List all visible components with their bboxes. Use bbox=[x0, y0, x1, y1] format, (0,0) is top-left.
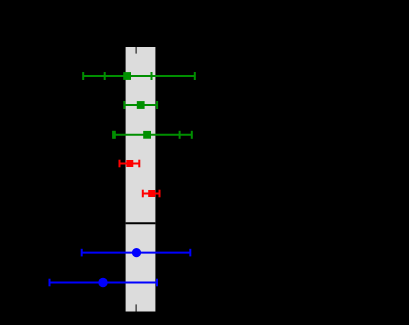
measurement 1 (green) error bar bbox=[83, 72, 195, 80]
separator line (black, visible over band) bbox=[126, 222, 156, 224]
average band bbox=[126, 47, 156, 312]
measurement 4 (red) error bar bbox=[120, 160, 140, 168]
measurement 7 (blue) error bar bbox=[50, 278, 158, 287]
measurement 5 (red) error bar bbox=[143, 190, 160, 198]
measurement 6 (blue) error bar bbox=[82, 248, 191, 257]
bottom axis tick bbox=[135, 304, 137, 311]
top axis tick bbox=[135, 47, 137, 54]
measurement 3 (green) error bar bbox=[113, 131, 192, 139]
measurement 2 (green) error bar bbox=[124, 101, 157, 109]
